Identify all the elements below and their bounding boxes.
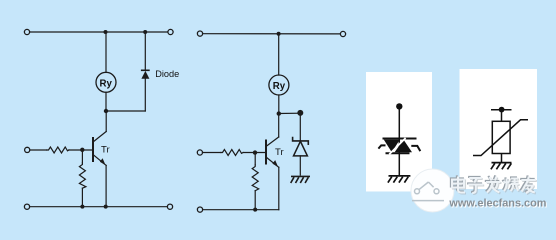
svg-text:www.elecfans.com: www.elecfans.com bbox=[448, 197, 546, 209]
svg-text:Tr: Tr bbox=[275, 147, 284, 158]
svg-text:Ry: Ry bbox=[100, 78, 113, 89]
svg-text:Tr: Tr bbox=[101, 144, 110, 155]
svg-text:Diode: Diode bbox=[155, 69, 179, 79]
svg-text:Ry: Ry bbox=[273, 81, 286, 92]
